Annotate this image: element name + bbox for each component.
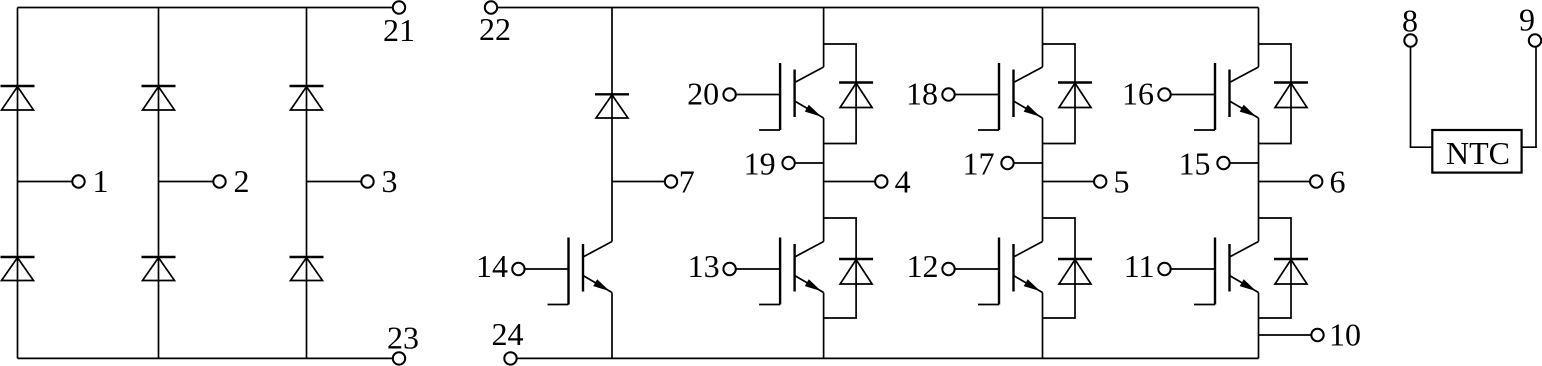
diode D1 bbox=[1, 86, 35, 110]
terminal 23 bbox=[387, 320, 419, 365]
wire tap to terminal 2 bbox=[159, 181, 214, 183]
terminal 14 bbox=[476, 248, 569, 284]
diode D3 bbox=[142, 86, 176, 110]
svg-text:21: 21 bbox=[383, 12, 415, 48]
svg-text:4: 4 bbox=[895, 164, 911, 200]
terminal 22 bbox=[479, 1, 511, 47]
wire leg 4 emitter segment bbox=[1258, 293, 1260, 359]
wire leg 4 middle segment bbox=[1258, 118, 1260, 242]
transistor Q2 bbox=[759, 63, 824, 130]
wire leg 3 collector segment bbox=[1042, 8, 1044, 68]
svg-text:18: 18 bbox=[906, 76, 938, 112]
svg-text:20: 20 bbox=[687, 76, 719, 112]
terminal 24 bbox=[492, 316, 524, 364]
diode D4 bbox=[142, 257, 176, 281]
wire leg 3 emitter segment bbox=[1042, 293, 1044, 359]
wire rectifier leg 1 bbox=[17, 8, 19, 359]
svg-text:13: 13 bbox=[688, 248, 720, 284]
svg-text:7: 7 bbox=[679, 164, 695, 200]
wire tap to terminal 3 bbox=[307, 181, 362, 183]
wire leg 2 collector segment bbox=[823, 8, 825, 68]
svg-text:24: 24 bbox=[492, 316, 524, 352]
wire tap to terminal 7 bbox=[612, 181, 665, 183]
diode D5 bbox=[290, 86, 324, 110]
svg-text:6: 6 bbox=[1330, 164, 1346, 200]
terminal 12 bbox=[907, 248, 1000, 284]
svg-text:17: 17 bbox=[963, 146, 995, 182]
terminal 13 bbox=[688, 248, 781, 284]
wire leg 3 middle segment bbox=[1042, 118, 1044, 242]
terminal 8 bbox=[1402, 3, 1418, 47]
diode D11 bbox=[1058, 259, 1092, 284]
wire tap to terminal 1 bbox=[18, 181, 73, 183]
NTC thermistor bbox=[1432, 130, 1521, 173]
wire leg 2 emitter segment bbox=[823, 293, 825, 359]
svg-text:15: 15 bbox=[1179, 146, 1211, 182]
svg-text:5: 5 bbox=[1114, 164, 1130, 200]
svg-text:NTC: NTC bbox=[1446, 135, 1510, 171]
terminal 21 bbox=[383, 1, 415, 48]
diode D9 bbox=[839, 259, 873, 284]
transistor Q6 bbox=[1194, 63, 1259, 130]
terminal 4 bbox=[875, 164, 911, 200]
svg-text:16: 16 bbox=[1122, 76, 1154, 112]
diode D2 bbox=[1, 257, 35, 281]
terminal 5 bbox=[1094, 164, 1130, 200]
diode D13 bbox=[1274, 259, 1308, 284]
wire terminal 8 to NTC bbox=[1411, 47, 1433, 148]
svg-text:1: 1 bbox=[93, 163, 109, 199]
wire leg 4 collector segment bbox=[1258, 8, 1260, 68]
terminal 18 bbox=[906, 76, 999, 112]
transistor Q5 bbox=[978, 238, 1043, 305]
wire freewheel loop of Q6 bbox=[1259, 44, 1292, 144]
wire tap to terminal 6 bbox=[1259, 181, 1311, 183]
terminal 9 bbox=[1519, 2, 1541, 47]
svg-text:23: 23 bbox=[387, 320, 419, 356]
svg-text:19: 19 bbox=[744, 146, 776, 182]
diode D6 bbox=[290, 257, 324, 281]
svg-text:12: 12 bbox=[907, 248, 939, 284]
terminal 6 bbox=[1310, 164, 1346, 200]
transistor Q4 bbox=[978, 63, 1043, 130]
diode D7 bbox=[595, 94, 629, 118]
diode D12 bbox=[1274, 83, 1308, 108]
terminal 20 bbox=[687, 76, 780, 112]
diode D8 bbox=[839, 83, 873, 108]
wire branch 1 upper segment bbox=[611, 8, 613, 242]
wire leg 2 middle segment bbox=[823, 118, 825, 242]
svg-text:22: 22 bbox=[479, 11, 511, 47]
terminal 17 bbox=[963, 146, 1014, 182]
wire tap to terminal 17 bbox=[1014, 162, 1043, 164]
wire freewheel loop of Q7 bbox=[1259, 218, 1292, 318]
svg-text:14: 14 bbox=[476, 248, 508, 284]
wire rectifier leg 2 bbox=[158, 8, 160, 359]
wire bottom rail of rectifier bridge bbox=[18, 357, 393, 359]
wire branch 1 lower segment bbox=[611, 293, 613, 359]
transistor Q3 bbox=[759, 238, 824, 305]
terminal 3 bbox=[361, 163, 397, 199]
wire top rail of inverter bbox=[497, 7, 1258, 9]
svg-text:2: 2 bbox=[234, 163, 250, 199]
wire tap to terminal 4 bbox=[824, 181, 876, 183]
wire tap to terminal 19 bbox=[795, 162, 824, 164]
svg-text:10: 10 bbox=[1329, 317, 1361, 353]
terminal 10 bbox=[1311, 317, 1361, 353]
svg-text:9: 9 bbox=[1519, 2, 1535, 38]
wire top rail of rectifier bridge bbox=[18, 7, 393, 9]
terminal 2 bbox=[213, 163, 249, 199]
transistor Q1 bbox=[548, 238, 613, 305]
terminal 16 bbox=[1122, 76, 1215, 112]
wire freewheel loop of Q4 bbox=[1043, 44, 1076, 144]
wire tap to terminal 15 bbox=[1230, 162, 1259, 164]
wire freewheel loop of Q3 bbox=[824, 218, 857, 318]
wire tap to terminal 10 bbox=[1259, 334, 1312, 336]
diode D10 bbox=[1058, 83, 1092, 108]
svg-text:3: 3 bbox=[382, 163, 398, 199]
wire terminal 9 to NTC bbox=[1522, 47, 1536, 148]
transistor Q7 bbox=[1194, 238, 1259, 305]
wire freewheel loop of Q5 bbox=[1043, 218, 1076, 318]
wire rectifier leg 3 bbox=[306, 8, 308, 359]
terminal 7 bbox=[665, 164, 695, 200]
terminal 15 bbox=[1179, 146, 1230, 182]
wire tap to terminal 5 bbox=[1043, 181, 1095, 183]
svg-text:8: 8 bbox=[1402, 3, 1418, 39]
terminal 11 bbox=[1124, 248, 1215, 284]
wire freewheel loop of Q2 bbox=[824, 44, 857, 144]
wire bottom rail of inverter bbox=[517, 357, 1259, 359]
svg-text:11: 11 bbox=[1124, 248, 1155, 284]
terminal 1 bbox=[72, 163, 108, 199]
terminal 19 bbox=[744, 146, 795, 182]
